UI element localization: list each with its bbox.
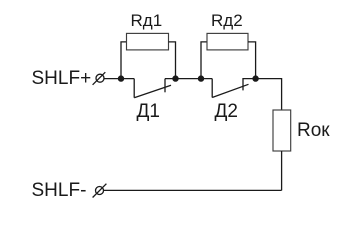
label SHLF+ — [32, 68, 92, 90]
contact D2 (detector contact) — [212, 79, 255, 98]
wire: Rok bottom lead — [281, 151, 283, 190]
wire: SHLF+ terminal to D1 left — [104, 78, 134, 80]
label D2 — [215, 101, 238, 123]
contact D1 (detector contact) — [134, 79, 171, 98]
node: junction dot at Rd2 left lead — [198, 75, 204, 81]
wire: between D1 right and D2 left — [165, 78, 212, 80]
label D1 — [137, 101, 160, 123]
node: junction dot at Rd1 left lead — [118, 75, 124, 81]
wire: Rd1 right lead — [169, 42, 176, 79]
label Rd2 — [211, 11, 243, 31]
resistor Rok — [273, 110, 291, 151]
wire: dot to Rok top corner — [256, 79, 282, 110]
terminal SHLF+ — [93, 72, 106, 85]
resistor Rd1 — [127, 33, 169, 50]
label Rd1 — [131, 11, 163, 31]
resistor Rd2 — [207, 33, 248, 50]
label SHLF- — [32, 180, 87, 202]
node: junction dot at Rd1 right lead — [172, 75, 178, 81]
wire: Rd2 right lead — [248, 42, 256, 79]
wire: bottom return to SHLF- — [104, 189, 282, 191]
node: junction dot at Rd2 right lead / Rok branch — [252, 75, 258, 81]
wire: Rd2 left lead — [201, 42, 207, 79]
terminal SHLF- — [93, 184, 107, 198]
wire: Rd1 left lead — [121, 42, 127, 79]
label Rok — [297, 120, 330, 142]
